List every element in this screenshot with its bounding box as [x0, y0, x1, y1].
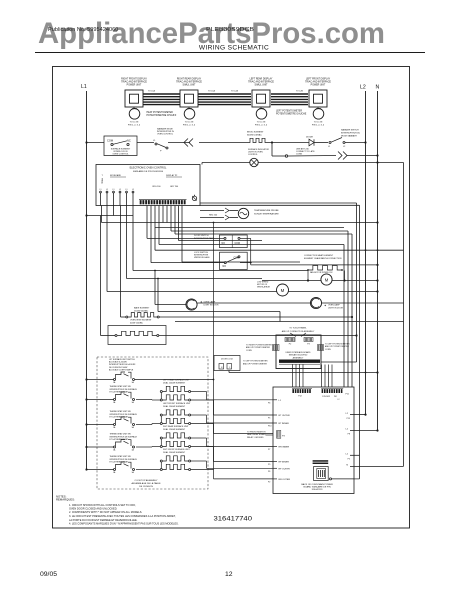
svg-text:TRIAC AND INTERFACE: TRIAC AND INTERFACE	[248, 80, 274, 83]
svg-text:L1: L1	[328, 146, 331, 148]
svg-text:Publication No. 5995424060: Publication No. 5995424060	[48, 27, 118, 33]
svg-text:1A: 1A	[113, 471, 116, 474]
svg-text:SABBATH SWITCH: SABBATH SWITCH	[341, 129, 359, 132]
svg-text:1A: 1A	[113, 449, 116, 452]
board connector P3	[277, 431, 281, 439]
svg-text:INTERRUPTEUR DU: INTERRUPTEUR DU	[341, 133, 361, 135]
ribbon cable band 1	[143, 93, 180, 95]
svg-text:P3: P3	[307, 344, 310, 346]
svg-text:TEMPERATURE PROBE: TEMPERATURE PROBE	[254, 209, 279, 212]
svg-text:M: M	[325, 278, 329, 283]
svg-text:TO L1 IN: TO L1 IN	[257, 122, 266, 124]
wire	[307, 270, 309, 281]
svg-text:DUAL 1200W ELEMENT: DUAL 1200W ELEMENT	[163, 381, 186, 384]
svg-text:VENTILATEUR: VENTILATEUR	[257, 286, 271, 289]
svg-text:1A: 1A	[132, 381, 135, 384]
EOC pins left	[100, 193, 102, 206]
svg-text:P2: P2	[289, 344, 292, 346]
svg-text:1A: 1A	[113, 401, 116, 404]
svg-text:BACK OF OVEN MAIN POWER: BACK OF OVEN MAIN POWER	[301, 483, 333, 486]
wire bake feed	[120, 206, 122, 318]
svg-text:TO FRONT RIGHT HI: TO FRONT RIGHT HI	[247, 432, 266, 434]
indicator lamp	[250, 158, 258, 166]
svg-text:LEFT FRONT SURFACE UNIT: LEFT FRONT SURFACE UNIT	[163, 402, 191, 405]
wire main feed	[87, 142, 105, 144]
relay interlock box	[104, 136, 137, 156]
svg-text:SIMUL UNIT: SIMUL UNIT	[255, 85, 269, 87]
wire bundle vertical a	[356, 203, 358, 362]
svg-text:INTERRUPTEUR DE SURFACE: INTERRUPTEUR DE SURFACE	[110, 413, 138, 416]
svg-text:TO L1A: TO L1A	[148, 90, 156, 93]
svg-text:RED 200: RED 200	[209, 214, 218, 216]
svg-text:L1: L1	[153, 140, 156, 142]
wire fan from EOC comb	[146, 206, 148, 239]
svg-text:RELAY 1 GROUND: RELAY 1 GROUND	[247, 436, 264, 439]
svg-text:DISPLAY P2: DISPLAY P2	[166, 174, 178, 177]
svg-text:OVEN LAMP: OVEN LAMP	[328, 304, 340, 307]
temperature probe	[200, 210, 224, 212]
wire bundle to board	[343, 245, 345, 388]
wire bus2	[106, 206, 108, 292]
wire L1 vertical	[86, 91, 88, 470]
svg-text:P6: P6	[268, 471, 270, 473]
svg-text:P3: P3	[282, 435, 285, 437]
svg-text:LOCK SWITCH: LOCK SWITCH	[194, 252, 208, 254]
wire	[314, 142, 328, 144]
connector stub	[304, 338, 313, 342]
surface unit switch 1	[87, 379, 114, 381]
svg-text:INTERRUPTEUR DE SURFACE: INTERRUPTEUR DE SURFACE	[110, 458, 138, 461]
svg-text:THERMOSTAT UNIT SW: THERMOSTAT UNIT SW	[110, 433, 131, 436]
svg-text:INTERRUPTER PART: INTERRUPTER PART	[194, 237, 215, 240]
svg-text:THERMOSTAT UNIT SW: THERMOSTAT UNIT SW	[110, 410, 131, 413]
wire lamp feed a	[126, 206, 128, 279]
svg-text:316442119: 316442119	[312, 489, 324, 491]
svg-text:L1: L1	[100, 189, 102, 191]
terminal bar	[279, 360, 320, 363]
svg-text:P2: P2	[268, 482, 270, 484]
wire lamp feed b	[132, 206, 134, 271]
wire bus3	[155, 227, 344, 229]
svg-text:SIMILAIRE DE P/N 316418200: SIMILAIRE DE P/N 316418200	[133, 170, 164, 173]
svg-text:RT OUTER: RT OUTER	[279, 415, 291, 417]
svg-text:ET LA THERMOSTAT: ET LA THERMOSTAT	[110, 416, 129, 419]
svg-text:POWER UNIT: POWER UNIT	[311, 85, 326, 87]
svg-text:BAKE ELEMENT: BAKE ELEMENT	[134, 307, 150, 310]
svg-text:AND UP CONNECTION ASSEMBLY: AND UP CONNECTION ASSEMBLY	[282, 330, 315, 333]
connector chevrons	[338, 152, 347, 160]
wire	[199, 142, 247, 144]
svg-text:POTENTIOMETRE GAUCHE: POTENTIOMETRE GAUCHE	[276, 113, 307, 116]
svg-text:LEFT POTENTIOMETER: LEFT POTENTIOMETER	[276, 111, 302, 113]
svg-text:NO: NO	[222, 243, 226, 245]
surface unit switch 4	[87, 446, 114, 448]
svg-text:DUAL 1200W ELEMENT: DUAL 1200W ELEMENT	[163, 428, 186, 431]
svg-text:ELEMENT CHAUFFANT A CONVECTION: ELEMENT CHAUFFANT A CONVECTION	[304, 257, 342, 260]
svg-text:09/05: 09/05	[40, 571, 57, 578]
svg-text:RT INNER: RT INNER	[279, 423, 290, 425]
svg-text:OVEN DOOR CLOSED AND UNLOCKED.: OVEN DOOR CLOSED AND UNLOCKED.	[69, 506, 118, 510]
potentiometer knob	[260, 107, 262, 108]
ribbon cable band 2	[198, 93, 251, 95]
svg-text:1. CIRCUIT SHOWN WITH ALL CO: 1. CIRCUIT SHOWN WITH ALL CONTROLS SET T…	[69, 503, 136, 507]
wires from terminal bar	[292, 365, 294, 388]
svg-text:L2: L2	[360, 85, 366, 91]
svg-text:P11: P11	[346, 394, 350, 396]
junction wire2/N	[376, 154, 378, 156]
svg-text:ET LA THERMOSTAT: ET LA THERMOSTAT	[110, 461, 129, 464]
surface unit switch 3	[87, 424, 114, 426]
right connector	[318, 345, 324, 351]
svg-text:RF OUTER: RF OUTER	[279, 468, 291, 470]
svg-text:PM: PM	[334, 396, 337, 398]
EOC terminal comb P1	[139, 199, 187, 201]
svg-text:THERMOSTAT UNIT SW: THERMOSTAT UNIT SW	[110, 385, 131, 388]
svg-text:AND UP POTENTIOMETER: AND UP POTENTIOMETER	[325, 345, 350, 348]
svg-text:C: C	[229, 367, 231, 369]
svg-text:DE CUISSON: DE CUISSON	[139, 486, 153, 488]
svg-text:THERMOSTAT UNIT SW: THERMOSTAT UNIT SW	[110, 455, 131, 458]
cooktop dashed enclosure	[97, 357, 208, 489]
board comb P12	[292, 388, 312, 390]
svg-text:USER INTERFACE BOARD: USER INTERFACE BOARD	[285, 351, 311, 354]
svg-text:1A: 1A	[132, 426, 135, 429]
svg-text:LIGHT IN DOOR: LIGHT IN DOOR	[328, 308, 344, 310]
svg-text:PLEB30S9DCB: PLEB30S9DCB	[206, 27, 255, 33]
svg-text:12: 12	[225, 571, 233, 578]
svg-text:L2: L2	[338, 399, 340, 401]
svg-text:SIMUL UNIT: SIMUL UNIT	[183, 85, 197, 87]
oven lamp 2	[197, 302, 310, 304]
svg-text:COM: COM	[235, 243, 240, 245]
wire lamp drop 1	[154, 271, 156, 305]
svg-text:DUAL 1500W ELEMENT: DUAL 1500W ELEMENT	[163, 405, 186, 408]
svg-text:TO RIGHT POTENTIOMETER: TO RIGHT POTENTIOMETER	[246, 345, 272, 347]
svg-text:2. COMPONENTS WITH * DO NOT: 2. COMPONENTS WITH * DO NOT APPEAR ON AL…	[69, 510, 142, 514]
svg-text:M: M	[281, 288, 285, 293]
svg-text:PIN 1, 2, 3, 4: PIN 1, 2, 3, 4	[128, 125, 141, 127]
svg-text:INTERRUPTEUR DE LA SURF: INTERRUPTEUR DE LA SURF	[109, 363, 136, 366]
junction L1/bus1	[85, 214, 87, 216]
svg-text:P9: P9	[268, 464, 270, 466]
wire bus1	[87, 215, 134, 217]
svg-text:L1: L1	[113, 189, 115, 191]
potentiometer knob	[133, 107, 135, 108]
convection fan motor M1	[321, 274, 332, 285]
svg-text:RR INNER: RR INNER	[279, 447, 290, 449]
svg-text:A DOUBLE 6-1500W: A DOUBLE 6-1500W	[109, 361, 127, 364]
svg-text:FAN MOTOR INTERLOCK: FAN MOTOR INTERLOCK	[310, 271, 333, 274]
connector stub	[285, 338, 295, 342]
svg-text:INTERRUPTER: INTERRUPTER	[194, 255, 209, 257]
svg-text:L2: L2	[346, 429, 349, 431]
svg-text:1A: 1A	[113, 426, 116, 429]
wire drop	[271, 143, 273, 157]
svg-text:L1: L1	[81, 84, 87, 90]
svg-text:RIGHT FRONT DISPLAY: RIGHT FRONT DISPLAY	[121, 77, 147, 80]
svg-text:REMARQUES:: REMARQUES:	[56, 498, 75, 502]
left connector	[273, 345, 280, 351]
svg-text:WIRING SCHEMATIC: WIRING SCHEMATIC	[199, 45, 269, 52]
svg-text:TO TOUCH PANEL: TO TOUCH PANEL	[289, 327, 307, 330]
svg-text:P15: P15	[347, 418, 350, 420]
svg-text:PIN 1, 2, 3, 4: PIN 1, 2, 3, 4	[183, 125, 196, 127]
svg-text:TO L1A: TO L1A	[208, 90, 216, 93]
svg-text:P4: P4	[268, 402, 270, 404]
svg-text:AND UP POTENTIOMETER: AND UP POTENTIOMETER	[243, 363, 268, 366]
wire	[137, 142, 154, 144]
svg-text:ASSEMBLAGE DE LA TABLE: ASSEMBLAGE DE LA TABLE	[131, 482, 161, 485]
svg-text:AND UP POTENTIOMETER: AND UP POTENTIOMETER	[246, 346, 271, 349]
wire broil feed	[100, 216, 102, 336]
svg-text:3. LE CIRCUIT EST PRESENTE A: 3. LE CIRCUIT EST PRESENTE AVEC TOUTES L…	[69, 514, 176, 518]
svg-text:TRIAC AND INTERFACE: TRIAC AND INTERFACE	[121, 80, 147, 83]
wire pair to right	[200, 202, 357, 204]
svg-text:RF INNER: RF INNER	[279, 462, 290, 464]
svg-text:HEAT RELAY BOARD: HEAT RELAY BOARD	[247, 433, 266, 436]
svg-text:NO: NO	[223, 266, 227, 268]
svg-text:P5: P5	[348, 459, 350, 461]
svg-text:4. LES COMPOSANTS MARQUES D': 4. LES COMPOSANTS MARQUES D'UN * N'APPAR…	[69, 521, 179, 525]
svg-text:LEFT REAR SURFACE UNIT: LEFT REAR SURFACE UNIT	[163, 378, 190, 381]
wire	[202, 162, 250, 164]
right margin wire down	[403, 163, 405, 467]
svg-text:A DOUBLE CORPS SIMPLE: A DOUBLE CORPS SIMPLE	[109, 368, 134, 371]
wire L2 vertical	[365, 91, 367, 415]
schematic border	[53, 67, 410, 529]
electronic oven control EOC	[96, 165, 200, 206]
svg-text:P7: P7	[268, 449, 270, 451]
svg-text:TRIAC AND INTERFACE: TRIAC AND INTERFACE	[305, 80, 331, 83]
svg-text:BROIL ELEMENT: BROIL ELEMENT	[247, 132, 264, 134]
svg-text:COOKTOP ASSEMBLY: COOKTOP ASSEMBLY	[135, 479, 159, 482]
svg-text:HEAT POTENTIOMETER: HEAT POTENTIOMETER	[147, 111, 174, 114]
wire	[268, 142, 309, 144]
board left pins	[273, 399, 277, 401]
svg-text:RGT REAR SURFACE UNIT: RGT REAR SURFACE UNIT	[163, 425, 189, 428]
svg-text:INTERRUPTEUR DE SURFACE: INTERRUPTEUR DE SURFACE	[110, 435, 138, 438]
svg-text:DUAL 1500W ELEMENT: DUAL 1500W ELEMENT	[163, 451, 186, 454]
svg-text:CONTROL: CONTROL	[248, 154, 259, 156]
svg-text:T: T	[102, 175, 104, 177]
svg-text:KEYBOARD: KEYBOARD	[110, 174, 122, 177]
svg-text:L1: L1	[279, 400, 282, 402]
svg-text:1A: 1A	[113, 381, 116, 384]
svg-text:LEFT REAR DISPLAY: LEFT REAR DISPLAY	[250, 77, 273, 80]
potentiometer knob	[188, 107, 190, 108]
junction	[271, 141, 273, 143]
svg-text:OVEN CONTROL: OVEN CONTROL	[157, 134, 174, 136]
svg-text:VERROUILLAGE: VERROUILLAGE	[194, 256, 210, 259]
surface unit switch 2	[87, 399, 114, 401]
svg-text:RR OUTER: RR OUTER	[279, 479, 291, 481]
svg-text:OVEN CONTROL: OVEN CONTROL	[112, 154, 129, 156]
svg-text:LIGHT IN DOOR: LIGHT IN DOOR	[204, 305, 220, 307]
wire N vertical	[377, 91, 379, 431]
svg-text:N: N	[376, 85, 380, 91]
svg-text:316417740: 316417740	[214, 516, 253, 523]
surface unit switch 5	[87, 469, 114, 471]
svg-text:ET LA THERMOSTAT: ET LA THERMOSTAT	[110, 391, 129, 394]
svg-text:ASSEMBLY: ASSEMBLY	[293, 356, 304, 359]
svg-text:ET LA THERMOSTAT: ET LA THERMOSTAT	[110, 438, 129, 441]
wire bundle vertical b	[359, 205, 361, 479]
svg-text:1A: 1A	[132, 401, 135, 404]
wire switch1 out	[135, 379, 214, 381]
svg-text:POTENTIOMETRE CHAUFF: POTENTIOMETRE CHAUFF	[147, 114, 177, 117]
svg-text:NC: NC	[127, 139, 131, 143]
svg-text:BOARD SIMILAIRE DE P/N: BOARD SIMILAIRE DE P/N	[303, 486, 331, 489]
svg-text:PIN 1, 2, 3, 4: PIN 1, 2, 3, 4	[312, 125, 325, 127]
ribbon cable band 3	[271, 93, 308, 95]
svg-text:TRIAC: TRIAC	[101, 178, 104, 185]
svg-text:RGT FRONT SURFACE UNIT: RGT FRONT SURFACE UNIT	[163, 448, 191, 451]
svg-text:400W 120VAC: 400W 120VAC	[130, 321, 144, 324]
svg-text:TO LEFT POTENTIOMETER: TO LEFT POTENTIOMETER	[243, 361, 268, 363]
svg-text:LEFT FRONT DISPLAY: LEFT FRONT DISPLAY	[306, 77, 331, 80]
board dip switch block	[313, 460, 329, 462]
svg-text:CON NOR: CON NOR	[322, 396, 331, 398]
svg-text:L1: L1	[119, 189, 121, 191]
potentiometer knob	[317, 107, 319, 108]
svg-text:P: P	[160, 151, 162, 153]
svg-text:ORG 200: ORG 200	[152, 186, 161, 188]
svg-text:CONN: CONN	[325, 349, 331, 351]
svg-text:P5: P5	[268, 418, 270, 420]
svg-text:P8: P8	[348, 434, 350, 436]
svg-text:INTERRUPTEUR DE SURFACE: INTERRUPTEUR DE SURFACE	[110, 388, 138, 391]
svg-text:P12: P12	[298, 395, 302, 397]
main power board	[273, 387, 354, 494]
svg-text:L1: L1	[126, 189, 128, 191]
svg-text:3400W 240VAC: 3400W 240VAC	[247, 134, 262, 137]
wire under lamps	[158, 311, 280, 313]
svg-text:RIGHT REAR DISPLAY: RIGHT REAR DISPLAY	[177, 77, 202, 80]
svg-text:✶: ✶	[324, 304, 327, 308]
wire lamp drop 2	[157, 279, 159, 312]
svg-text:DIODE: DIODE	[306, 137, 313, 139]
svg-text:TRIAC AND INTERFACE: TRIAC AND INTERFACE	[176, 80, 202, 83]
svg-text:SONDE TEMPERATURE: SONDE TEMPERATURE	[254, 213, 279, 216]
svg-text:L2: L2	[346, 413, 349, 415]
svg-text:TO LEFT POTENTIOMETER: TO LEFT POTENTIOMETER	[325, 344, 350, 346]
svg-text:POWER UNIT: POWER UNIT	[127, 85, 142, 87]
svg-text:GRY 200: GRY 200	[170, 186, 179, 188]
svg-text:N: N	[221, 367, 223, 369]
svg-text:LA PORTE DU FOUR EST FERMEE ET: LA PORTE DU FOUR EST FERMEE ET DEVERROUI…	[69, 518, 138, 522]
svg-text:ELECTRONIC OVEN CONTROL: ELECTRONIC OVEN CONTROL	[130, 167, 167, 170]
junction L1/wire1	[85, 141, 87, 143]
svg-text:TO L2A: TO L2A	[231, 90, 239, 93]
svg-text:CONVECTION HEAT ELEMENT: CONVECTION HEAT ELEMENT	[304, 254, 334, 257]
svg-text:L2: L2	[346, 454, 349, 456]
svg-text:TO L1 IN: TO L1 IN	[314, 122, 323, 124]
wire	[288, 155, 336, 158]
wire divider vertical	[213, 223, 215, 471]
svg-text:2500W 240VAC: 2500W 240VAC	[134, 310, 149, 313]
svg-text:DOOR SWITCH: DOOR SWITCH	[194, 235, 209, 237]
svg-text:1A: 1A	[132, 449, 135, 452]
svg-text:1A: 1A	[132, 471, 135, 474]
wire	[168, 142, 190, 144]
svg-text:CONN: CONN	[246, 350, 252, 352]
terminal	[285, 155, 287, 157]
EOC ground clip	[192, 196, 196, 200]
svg-text:COM: COM	[107, 139, 113, 143]
header rule	[35, 52, 425, 54]
connector chevrons	[184, 139, 193, 147]
svg-text:TO L1 IN: TO L1 IN	[130, 122, 139, 124]
junction wire1/L2	[364, 141, 366, 143]
wire	[345, 142, 366, 144]
svg-text:DOOR LOCK: DOOR LOCK	[221, 358, 234, 360]
door lock unit	[214, 356, 240, 371]
svg-text:L2: L2	[343, 146, 346, 148]
svg-text:P10: P10	[268, 426, 271, 428]
board comb P11	[321, 388, 343, 390]
svg-text:MODE SABBATH: MODE SABBATH	[341, 135, 357, 138]
svg-text:CONN: CONN	[296, 154, 302, 156]
svg-text:N: N	[346, 465, 348, 467]
svg-text:TO L1 IN: TO L1 IN	[185, 122, 194, 124]
svg-text:L1: L1	[132, 189, 134, 191]
svg-text:PIN 1, 2, 3, 4: PIN 1, 2, 3, 4	[255, 125, 268, 127]
svg-text:LFT SURFACE UNIT SWITCH: LFT SURFACE UNIT SWITCH	[109, 358, 135, 361]
junction wire3/N	[376, 161, 378, 163]
svg-text:TO L2B: TO L2B	[296, 91, 304, 93]
oven lamp 1	[155, 304, 186, 306]
svg-text:SIMILAR 316419700: SIMILAR 316419700	[289, 354, 308, 357]
wire	[228, 371, 230, 373]
svg-text:OVEN VENT ELEMENT: OVEN VENT ELEMENT	[130, 319, 152, 321]
svg-text:L1: L1	[106, 189, 108, 191]
